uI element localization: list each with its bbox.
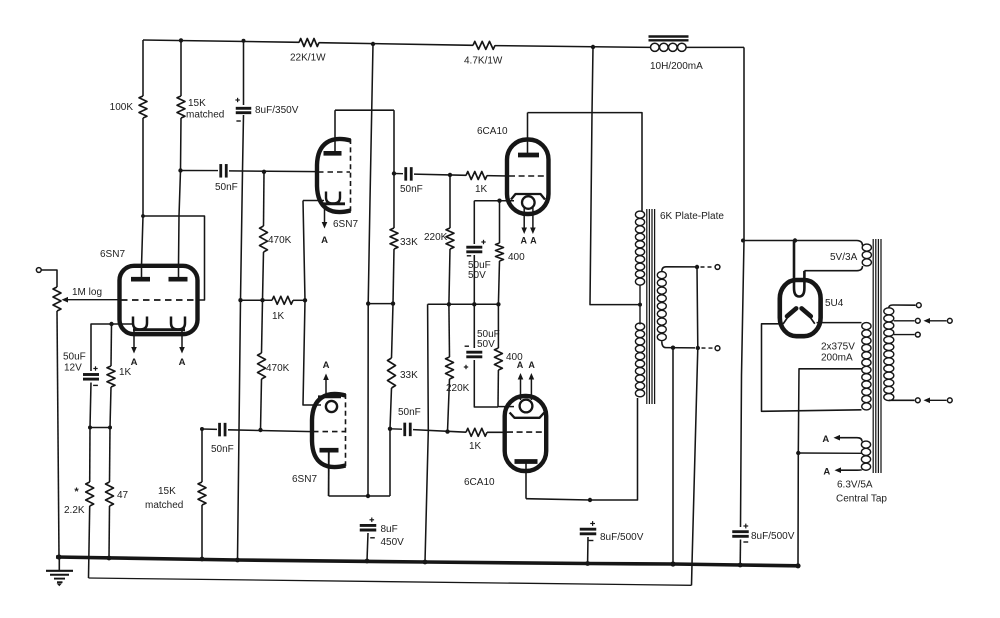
PT HT winding 2x375V (862, 323, 871, 330)
capacitor 8uF/500V (right) plates (732, 530, 749, 533)
potentiometer 1M log (53, 287, 61, 311)
resistor 400 (V4 cathode) (496, 243, 504, 261)
wire: pot bottom to ground bus (57, 311, 59, 557)
svg-text:400: 400 (508, 252, 525, 263)
wire: V2 cathode to shared line (303, 200, 324, 202)
wire: 470K upper from grid line (263, 172, 266, 226)
wire: 33K lower to plate V3 node (390, 388, 392, 496)
wire: V3 grid line solid (202, 428, 217, 430)
svg-text:50nF: 50nF (215, 182, 238, 193)
wire: secondary common to ground bus (672, 348, 674, 564)
wire: 220K lower top (448, 304, 451, 357)
V5 plate lead (525, 462, 527, 499)
PT core laminations (872, 239, 874, 473)
junction dot rectifier output node (741, 239, 745, 243)
junction dot mid node/470K (260, 298, 264, 302)
capacitor 8uF/350V plates (236, 107, 252, 110)
junction dot top rail / driver B+ drop (371, 42, 375, 46)
wire: 1K to V5 grid (487, 431, 507, 433)
wire: 8uF/500V right to ground bus (739, 540, 741, 566)
svg-text:15K: 15K (188, 98, 206, 109)
junction dot 220K upper/gnd bar (447, 302, 451, 306)
wire: 8uF/350V ground return (238, 115, 244, 560)
ground stem (58, 557, 60, 570)
wire: V2 plate lead (334, 110, 336, 152)
junction dot V2 plate output (392, 171, 396, 175)
resistor 33K lower (V3 plate load) (388, 358, 396, 388)
junction dot B+ feed left (366, 301, 370, 305)
wire: feedback vertical from secondary tap (692, 267, 698, 585)
wire: 15K matched plate line (top rail down) (180, 40, 182, 96)
junction dot top rail / 15K matched (179, 38, 183, 42)
resistor 220K (V4 grid leak) (446, 228, 454, 249)
svg-text:33K: 33K (400, 237, 418, 248)
pentode V4 envelope (6CA10) (507, 140, 549, 215)
wire: 400R V4 bottom (498, 261, 499, 304)
junction dot V3 plate output (388, 427, 392, 431)
resistor 47 (feedback shunt) (106, 482, 114, 506)
choke core bars (649, 35, 689, 37)
junction dot 50uF/gnd bar (472, 302, 476, 306)
wire: 1K to V4 grid (487, 175, 508, 177)
V1 heater lead 1 with arrow to A (133, 330, 135, 347)
svg-text:1K: 1K (475, 184, 488, 195)
junction dot bus/pot (56, 554, 61, 559)
svg-text:6CA10: 6CA10 (477, 126, 508, 137)
V6 anode right (802, 308, 811, 316)
V4 cathode cup (511, 194, 545, 200)
OPT primary winding upper half (635, 211, 644, 218)
resistor 100K (V1 plate load) (139, 96, 147, 118)
junction dot HT CT / 6.3V CT (796, 451, 800, 455)
wire: V3 plate bottom link (329, 495, 390, 497)
svg-text:450V: 450V (381, 537, 405, 548)
triode V2 envelope dashed side (350, 139, 352, 212)
PT HT centre tap wire (798, 369, 862, 566)
svg-text:6CA10: 6CA10 (464, 477, 495, 488)
V5 grid line dashes (507, 431, 543, 433)
wire: down to 47R (109, 428, 112, 483)
wire: 470K lower to V3 grid line (261, 379, 262, 430)
svg-text:470K: 470K (268, 235, 292, 246)
svg-text:50nF: 50nF (398, 407, 421, 418)
V5 cathode circle (520, 400, 533, 413)
V1 plate 1 bar (131, 277, 150, 282)
svg-text:A: A (179, 357, 186, 368)
svg-text:matched: matched (145, 500, 183, 511)
V4 plate bar (518, 153, 539, 158)
svg-text:470K: 470K (266, 363, 290, 374)
wire: output cathode ground bar (428, 303, 499, 305)
wire: driver B+ drop from top rail (368, 44, 373, 496)
wire: cathode network junction bar (90, 427, 110, 429)
wire: 50nF to V3 grid (228, 430, 312, 432)
wire: mid node bar (241, 299, 273, 301)
wire: 470K upper bottom to mid node (263, 252, 264, 300)
V3 heater lead with arrow to A (325, 380, 327, 396)
V4 cathode circle (522, 196, 535, 209)
wire: plate2 to 50nF coupling cap (181, 170, 219, 172)
resistor 220K (V5 grid leak) (446, 357, 454, 379)
junction dot bus/8uF350 return (235, 558, 240, 563)
V3 plate bar (320, 448, 339, 453)
capacitor 8uF/450V plates (360, 524, 377, 527)
PT mains tap 3 (894, 334, 915, 336)
resistor 15K matched (V1 plate load) (177, 96, 185, 118)
resistor 400 (V5 cathode) (494, 348, 502, 370)
OPT primary waist (639, 286, 641, 325)
svg-text:8uF: 8uF (381, 524, 398, 535)
junction dot bus/15K (200, 557, 205, 562)
svg-text:A: A (822, 434, 829, 445)
junction dot bus/OPT secondary (670, 561, 675, 566)
svg-text:100K: 100K (110, 102, 134, 113)
input terminal (36, 268, 41, 273)
svg-text:47: 47 (117, 490, 129, 501)
wire: feedback line along bottom (89, 578, 692, 585)
junction dot 15K/grid line (200, 427, 204, 431)
wire: plate1 line below 100K (142, 118, 144, 279)
V3 plate lead (328, 450, 330, 496)
wire: 2.2K through bus to feedback line (89, 506, 90, 578)
PT 6.3V bottom lead with arrow to A (840, 469, 862, 472)
wire: B+ top rail left segment (100K top to 22K) (143, 40, 299, 42)
wire: V5 cathode lead (498, 406, 514, 408)
triode V3 envelope (312, 394, 346, 467)
junction dot bus/output gnd bar (423, 560, 428, 565)
svg-text:A: A (323, 360, 330, 371)
junction dot secondary common (671, 346, 675, 350)
wire: plate1 to grid2 link (143, 216, 205, 300)
wire: 400R V5 bottom (497, 370, 499, 407)
ground symbol (46, 570, 73, 572)
rectifier V6 5U4 envelope (780, 280, 821, 336)
svg-text:4.7K/1W: 4.7K/1W (464, 56, 503, 67)
svg-text:22K/1W: 22K/1W (290, 53, 326, 64)
svg-text:A: A (131, 357, 138, 368)
triode V2 envelope (317, 139, 351, 212)
junction dot 5U4 filament (793, 238, 797, 242)
svg-text:6SN7: 6SN7 (100, 249, 125, 260)
svg-text:15K: 15K (158, 486, 176, 497)
capacitor 50uF/12V plates (83, 373, 99, 376)
wire: V4 cathode lead (474, 200, 514, 202)
PT 6.3V centre tap wire (798, 452, 862, 454)
capacitor 50nF (V3 grid, feedback) (218, 423, 221, 437)
ground bus (heavy) (56, 557, 798, 566)
wire: 8uF/500V left to ground bus (587, 537, 589, 563)
wire: 1K tail to cathode line (293, 299, 305, 301)
PT mains tap 4 with selector (889, 399, 915, 401)
V1 plate 2 bar (169, 277, 188, 282)
PT 6.3V top lead with arrow to A (839, 438, 862, 442)
OPT core laminations (646, 209, 648, 404)
capacitor 50nF (coupling V1 to V2) (219, 164, 222, 178)
svg-text:5U4: 5U4 (825, 298, 844, 309)
svg-text:A: A (530, 236, 537, 246)
V5 plate bar (515, 459, 538, 464)
junction dot top rail / OPT centre tap drop (591, 45, 595, 49)
junction dot 220K upper grid leak (448, 173, 452, 177)
V2 grid line dashes (318, 171, 350, 173)
wire: 220K upper top (449, 175, 451, 228)
wire: 50nF2 to 1K grid stopper (414, 174, 466, 175)
resistor 1K grid stopper V4 (466, 172, 487, 180)
wire: 33K upper to B+ node (393, 249, 394, 304)
wire: 220K lower bottom (448, 379, 450, 432)
OPT centre tap wire (590, 47, 640, 305)
svg-text:1K: 1K (119, 367, 132, 378)
wire: 400R V4 top (499, 201, 501, 243)
V3 cathode circle (326, 401, 337, 412)
svg-text:8uF/500V: 8uF/500V (751, 531, 795, 542)
resistor 22K/1W (top rail) (299, 39, 319, 47)
wire: plate V2 top link (335, 109, 394, 111)
junction dot cathode V1 (109, 322, 113, 326)
svg-text:A: A (520, 236, 527, 246)
resistor 4.7K/1W (top rail) (473, 41, 495, 49)
junction dot bus/8uF500 right (738, 563, 743, 568)
V5 cathode cup (510, 413, 545, 418)
wire: cathode node to 50uF/12V (91, 324, 112, 371)
V4 heater leads with arrows to A (523, 207, 525, 228)
V4 plate lead (527, 113, 529, 155)
triode V1 envelope (6SN7 input) (120, 266, 198, 334)
junction dot 8uF/450V tap (366, 494, 370, 498)
wire: 220K upper bottom (449, 249, 450, 304)
junction dot 50uF/2.2K (88, 426, 92, 430)
junction dot OPT centre tap (638, 303, 642, 307)
svg-text:50nF: 50nF (211, 444, 234, 455)
wire: 50uF V4 bottom (473, 255, 475, 304)
resistor 470K upper (260, 226, 268, 252)
svg-text:2.2K: 2.2K (64, 505, 85, 516)
V1 cathode 1 (133, 317, 147, 330)
V6 filament (794, 241, 804, 297)
wire: 1K bottom to junction (110, 387, 111, 428)
wire: V3 output to 50nF4 (390, 428, 402, 430)
capacitor 50uF/50V (V4) plates (466, 246, 482, 249)
svg-text:1M log: 1M log (72, 287, 102, 298)
resistor 470K lower (258, 353, 266, 379)
junction dot 1K/47R (108, 426, 112, 430)
junction dot 400R/gnd bar (496, 302, 500, 306)
junction dot plate1 link (141, 214, 145, 218)
svg-text:12V: 12V (64, 363, 82, 374)
junction dot bus/8uF500 left (585, 561, 590, 566)
capacitor 50nF (coupling to V4) (404, 167, 407, 181)
wire: cathode node to 1K bias resistor (110, 324, 113, 366)
svg-text:Central Tap: Central Tap (836, 494, 887, 505)
wire: 50uF V4 top (473, 201, 475, 244)
svg-text:50uF: 50uF (63, 352, 86, 363)
svg-text:200mA: 200mA (821, 353, 853, 364)
V2 cathode cup (326, 192, 340, 204)
junction dot mid node/ground line (238, 298, 242, 302)
OPT secondary bottom lead (662, 341, 695, 348)
junction dot bus/47R (107, 556, 112, 561)
junction dot bus/8uF450 (365, 559, 370, 564)
OPT secondary winding (657, 272, 666, 279)
wire: 50nF4 to 1K grid stopper V5 (413, 430, 466, 433)
svg-text:6SN7: 6SN7 (292, 474, 317, 485)
triode V3 envelope dashed side (345, 394, 347, 467)
svg-text:6SN7: 6SN7 (333, 219, 358, 230)
svg-text:A: A (517, 360, 524, 370)
V2 heater lead with arrow to A (324, 204, 326, 222)
wire: 15K matched top (201, 429, 203, 482)
wire: input terminal to 1M pot (41, 270, 57, 287)
wire: V2 output to 50nF2 (394, 173, 403, 175)
svg-text:8uF/500V: 8uF/500V (600, 532, 644, 543)
wire: 33K plate line upper (393, 110, 395, 228)
capacitor 8uF/500V (left) plates (580, 528, 597, 531)
svg-text:1K: 1K (272, 311, 285, 322)
V5 heater leads with arrows to A (520, 379, 522, 400)
resistor 2.2K (feedback) (86, 482, 94, 506)
wire: ground bar drop to bus (425, 304, 428, 562)
junction dot B+ feed right (391, 301, 395, 305)
OPT secondary top lead (662, 267, 695, 272)
svg-text:A: A (321, 235, 328, 246)
PT mains primary winding (884, 308, 894, 315)
svg-text:220K: 220K (424, 232, 448, 243)
wire: plate2 line below 15K (179, 118, 182, 279)
wire: 50uF V5 top (473, 304, 475, 348)
svg-text:50V: 50V (477, 339, 495, 350)
V1 grid line (dashed) (121, 299, 197, 301)
wire: 400R V5 top (497, 304, 499, 348)
svg-text:50V: 50V (468, 270, 486, 281)
svg-text:A: A (823, 467, 830, 478)
wire: choke right lead to PSU corner (686, 46, 744, 48)
V1 heater lead 2 with arrow to A (181, 330, 183, 347)
V1 cathode lead (112, 323, 134, 325)
OPT primary winding lower half (635, 323, 644, 330)
svg-text:6.3V/5A: 6.3V/5A (837, 480, 873, 491)
junction dot V2 grid / 470K (262, 170, 266, 174)
choke 10H/200mA coil (651, 43, 660, 51)
svg-text:6K Plate-Plate: 6K Plate-Plate (660, 211, 724, 222)
OPT secondary bottom terminal link (702, 347, 715, 349)
wire: 50uF/12V bottom (90, 383, 91, 428)
wire: V3 plate lead (328, 452, 330, 496)
wire: 15K matched bottom to ground bus (201, 505, 203, 559)
junction dot secondary bottom/feedback line (696, 346, 700, 350)
junction dot top rail / 8uF 350V (242, 39, 246, 43)
PT 5V/3A winding (862, 244, 871, 251)
svg-text:5V/3A: 5V/3A (830, 252, 858, 263)
V6 anode left (787, 308, 796, 316)
V1 cathode 2 (171, 317, 185, 330)
resistor 1K grid stopper V5 (466, 428, 487, 436)
V3 grid line dashes (313, 431, 345, 433)
junction dot V3 grid/470K (258, 428, 262, 432)
wire: V4 plate to OPT primary top (528, 113, 643, 211)
wire: 8uF/350V line from top rail (243, 41, 245, 105)
PT 6.3V winding (861, 441, 870, 448)
wire: choke output down to rectifier node (741, 47, 745, 527)
resistor 15K matched (feedback divider) (198, 482, 206, 505)
wire: 5V winding bottom to filament (803, 270, 805, 272)
wire: rectifier node to 5V winding and filament (743, 240, 857, 242)
svg-text:1K: 1K (469, 441, 482, 452)
pentode V5 envelope (6CA10) (505, 396, 547, 471)
wire: 470K lower from mid node (262, 300, 263, 353)
junction dot 220K lower grid leak (445, 429, 449, 433)
wire: 50nF to V2 grid (229, 170, 317, 173)
junction dot secondary feedback tap (695, 265, 699, 269)
junction dot plate2 / 50nF coupling (178, 168, 182, 172)
junction dot bus/PSU CT (end) (795, 563, 800, 568)
wire: top rail 22K to 4.7K (319, 43, 473, 46)
V4 grid line dashes (509, 175, 546, 177)
svg-text:2x375V: 2x375V (821, 342, 855, 353)
svg-text:50nF: 50nF (400, 184, 423, 195)
wire: 33K lower top (392, 304, 394, 358)
svg-text:*: * (74, 486, 79, 498)
V1 cathode bar (133, 328, 185, 331)
capacitor 50uF/50V (V5) plates (466, 351, 482, 354)
wire: shared cathode vertical (303, 201, 321, 406)
wire: 8uF/450V to ground bus (367, 533, 368, 561)
junction dot V4 cathode/400R (497, 199, 501, 203)
wiper arrow 1M pot (62, 297, 69, 303)
wire: 100K plate line (top rail to plate 1) (142, 40, 144, 96)
resistor 33K upper (V2 plate load) (390, 228, 398, 249)
svg-text:matched: matched (186, 110, 224, 121)
wire: 50uF V5 bottom (474, 360, 498, 407)
V3 cathode bar (318, 395, 341, 398)
wire: V5 plate to OPT primary bottom (526, 398, 638, 500)
resistor 1K (tail, horizontal) (272, 296, 293, 304)
junction dot 8uF/500V tap (588, 498, 592, 502)
PT mains tap 1 (889, 305, 916, 308)
capacitor 50nF (coupling to V5) (403, 423, 406, 437)
PT mains tap 2 with selector (894, 320, 915, 322)
svg-text:33K: 33K (400, 370, 418, 381)
wire: left anode to HT winding bottom (762, 324, 862, 412)
wire: driver B+ feed bar (368, 303, 393, 305)
V2 plate bar (324, 151, 342, 156)
resistor 1K (V1 cathode) (107, 366, 115, 387)
svg-text:8uF/350V: 8uF/350V (255, 105, 299, 116)
svg-text:10H/200mA: 10H/200mA (650, 61, 703, 72)
wire: 47R bottom to ground bus (108, 506, 111, 558)
junction dot cathodes V2/V3 (303, 298, 307, 302)
OPT secondary top terminal link (701, 266, 715, 268)
wire: top rail 4.7K to choke (495, 46, 650, 48)
wire: down to 2.2K (89, 428, 91, 483)
wire: right anode to HT winding top (817, 322, 862, 324)
svg-text:A: A (528, 360, 535, 370)
